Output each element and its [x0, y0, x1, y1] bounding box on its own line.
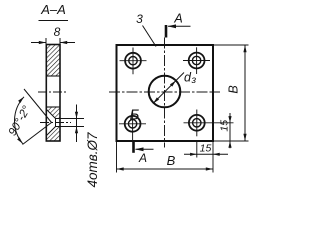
svg-text:В: В — [167, 153, 176, 168]
svg-text:В: В — [227, 85, 241, 93]
svg-text:15: 15 — [219, 120, 231, 132]
svg-text:8: 8 — [54, 25, 61, 39]
svg-text:3: 3 — [136, 12, 143, 26]
svg-text:Б: Б — [130, 107, 140, 124]
svg-text:4отв.Ø7: 4отв.Ø7 — [85, 132, 100, 188]
svg-text:15: 15 — [200, 143, 212, 155]
svg-text:А: А — [138, 151, 147, 165]
svg-text:А: А — [173, 12, 182, 26]
svg-text:А–А: А–А — [40, 2, 66, 17]
svg-text:з: з — [191, 75, 197, 86]
